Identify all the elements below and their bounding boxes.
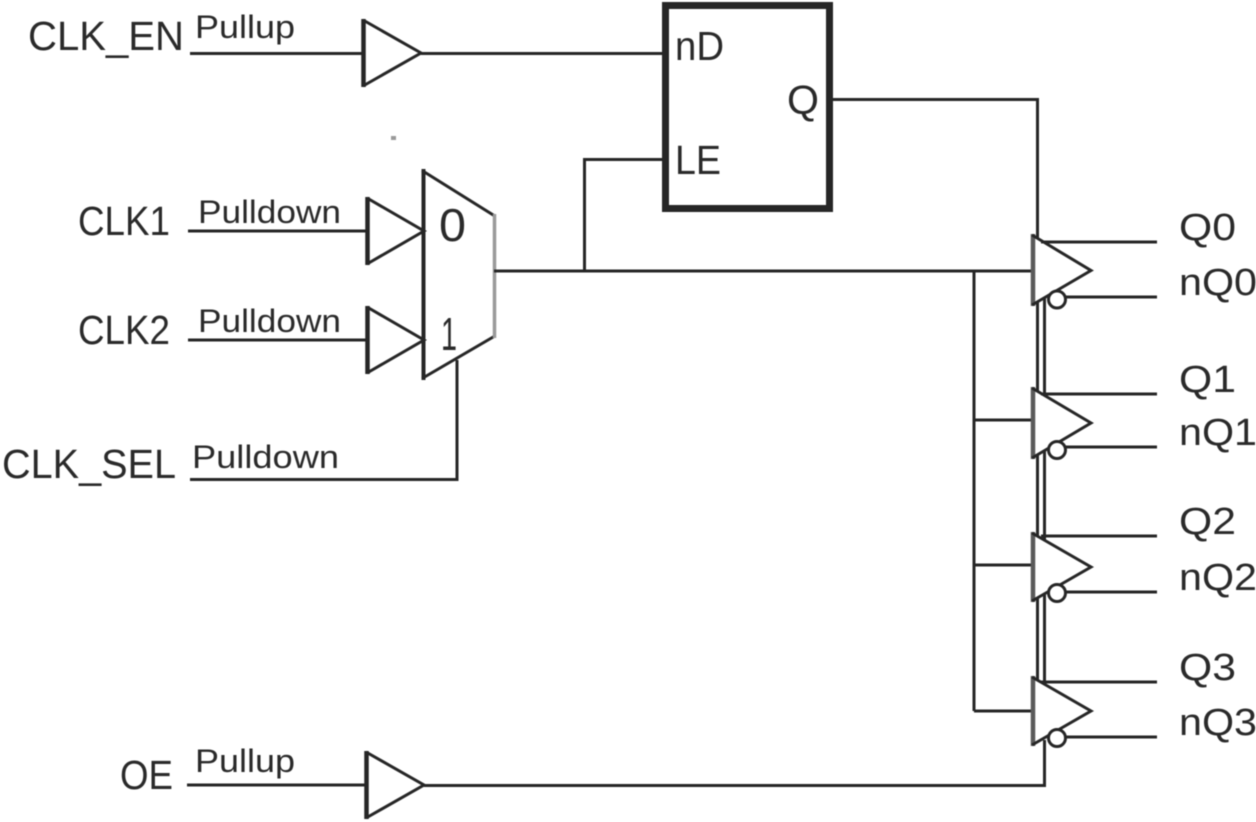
svg-text:nQ0: nQ0 <box>1179 262 1256 304</box>
wire clock stub to buffer Q2 <box>974 564 1033 567</box>
buffer U1 (CLK_EN input buffer) <box>363 19 421 87</box>
svg-text:Pullup: Pullup <box>195 9 295 45</box>
wire chain 2-3 left <box>1036 597 1039 681</box>
wire Q output <box>832 100 1038 240</box>
buffer U3 (CLK2 input buffer) <box>367 306 424 374</box>
wire CLK_SEL to mux select <box>190 360 457 480</box>
wire enable chain 0-1 right <box>1043 297 1046 396</box>
mux U4 <box>422 169 495 380</box>
wire CLK2 input <box>188 339 367 342</box>
wire Q2 output <box>1041 535 1157 538</box>
wire LE input <box>585 160 664 272</box>
wire CLK_EN input <box>190 52 363 55</box>
wire nQ2 output <box>1066 591 1158 594</box>
svg-text:CLK_EN: CLK_EN <box>28 13 184 59</box>
wire U1 output to nD <box>421 52 664 55</box>
svg-text:nQ1: nQ1 <box>1179 412 1256 454</box>
output driver Q1/nQ1 <box>1032 387 1091 459</box>
svg-text:Pulldown: Pulldown <box>198 194 341 230</box>
svg-text:nQ2: nQ2 <box>1179 557 1256 599</box>
svg-text:Q3: Q3 <box>1179 647 1236 689</box>
svg-text:Q0: Q0 <box>1179 207 1236 249</box>
svg-text:nD: nD <box>675 23 724 69</box>
wire OE input <box>187 784 366 787</box>
svg-text:CLK1: CLK1 <box>78 198 170 244</box>
svg-text:Pullup: Pullup <box>195 743 295 779</box>
wire chain 1-2 left <box>1036 454 1039 537</box>
wire chain 2-3 right <box>1043 593 1046 685</box>
svg-text:OE: OE <box>120 752 173 798</box>
svg-text:Pulldown: Pulldown <box>192 439 339 475</box>
output driver Q0/nQ0 <box>1032 234 1091 308</box>
wire clock stub to buffer Q1 <box>974 419 1033 422</box>
wire mux output (clock net) <box>494 270 1033 273</box>
wire Q0 output <box>1041 241 1157 244</box>
stray speck <box>391 136 396 140</box>
output driver Q3/nQ3 <box>1032 676 1091 747</box>
wire OE enable to output drivers <box>424 740 1045 786</box>
svg-text:CLK_SEL: CLK_SEL <box>2 441 176 487</box>
wire nQ1 output <box>1066 446 1158 449</box>
wire Q3 output <box>1041 681 1157 684</box>
wire clock stub to buffer Q3 <box>974 710 1033 713</box>
svg-text:LE: LE <box>675 137 721 183</box>
wire clock bus vertical <box>973 271 976 711</box>
wire Q1 output <box>1041 393 1157 396</box>
svg-text:0: 0 <box>439 199 466 251</box>
svg-text:Q: Q <box>787 77 819 123</box>
buffer U6 (OE input buffer) <box>366 751 424 819</box>
svg-text:Q2: Q2 <box>1179 501 1236 543</box>
wire nQ3 output <box>1066 736 1158 739</box>
latch U5 <box>666 6 830 209</box>
svg-text:Pulldown: Pulldown <box>198 303 341 339</box>
wire chain 1-2 right <box>1043 450 1046 541</box>
svg-text:Q1: Q1 <box>1179 359 1236 401</box>
wire nQ0 output <box>1066 296 1158 299</box>
buffer U2 (CLK1 input buffer) <box>367 197 424 265</box>
output driver Q2/nQ2 <box>1032 532 1091 602</box>
wire CLK1 input <box>188 230 367 233</box>
svg-text:nQ3: nQ3 <box>1179 702 1256 744</box>
svg-text:CLK2: CLK2 <box>78 307 170 353</box>
svg-text:1: 1 <box>441 308 457 360</box>
vertical link latch-Q to buffer0 / buffer chain wires <box>1036 301 1039 392</box>
